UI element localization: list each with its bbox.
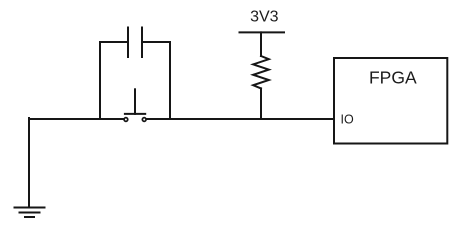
pushbutton SW1 <box>124 89 146 121</box>
ground <box>15 208 45 218</box>
wire: 3V3 bar to resistor top <box>260 32 262 56</box>
resistor R1 <box>253 56 269 88</box>
wire: left branch vertical of parallel network <box>99 42 101 119</box>
svg-text:IO: IO <box>341 113 354 127</box>
wire: ground drop vertical <box>28 118 30 208</box>
svg-text:3V3: 3V3 <box>250 8 279 25</box>
capacitor C1 <box>128 28 142 58</box>
wire: resistor bottom to main wire <box>260 88 262 119</box>
wire: top-left horizontal to capacitor <box>100 41 128 43</box>
wire: right branch vertical of parallel network <box>169 42 171 119</box>
FPGA box U1 <box>334 58 447 144</box>
wire: top-right horizontal from capacitor <box>142 41 170 43</box>
power rail 3V3 bar <box>240 31 285 33</box>
wire: right horizontal segment from switch right contact to FPGA IO pin <box>147 118 334 120</box>
svg-text:FPGA: FPGA <box>369 68 417 88</box>
wire: left horizontal segment from ground corner to switch left contact <box>29 118 123 120</box>
